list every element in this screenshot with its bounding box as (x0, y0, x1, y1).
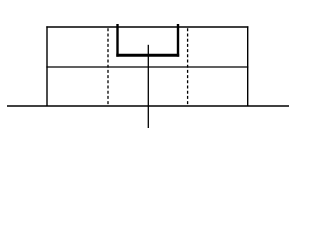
gate lead wire (147, 45, 149, 128)
device body left edge (46, 26, 48, 106)
layer interface divider (46, 66, 248, 68)
trench gate left arm (116, 24, 118, 57)
substrate ground line (7, 105, 289, 107)
right dashed boundary (187, 28, 189, 105)
trench gate right arm (177, 24, 179, 57)
device body right edge (247, 26, 249, 106)
trench gate bottom bar (116, 54, 179, 57)
device body top edge (46, 26, 248, 28)
left dashed boundary (107, 28, 109, 105)
